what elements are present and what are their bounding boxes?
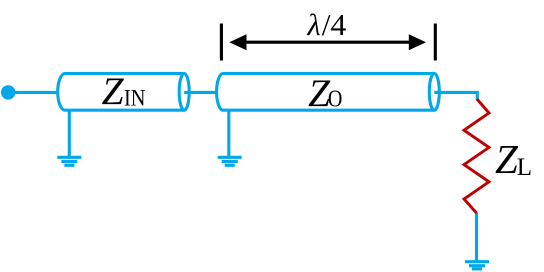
svg-text:/4: /4 (322, 8, 347, 42)
svg-text:L: L (517, 154, 532, 181)
svg-text:Z: Z (495, 136, 519, 182)
svg-text:λ: λ (307, 8, 321, 42)
svg-text:O: O (328, 87, 343, 113)
svg-text:IN: IN (124, 86, 146, 111)
svg-text:Z: Z (102, 69, 125, 113)
